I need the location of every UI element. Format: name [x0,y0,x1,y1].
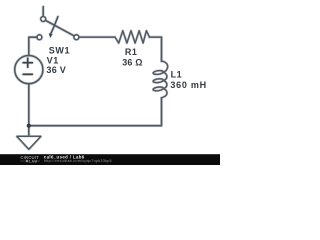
svg-text:36 Ω: 36 Ω [122,57,143,67]
inductor L1 loop 3 [153,86,164,91]
wire from V1 bottom to ground junction [28,84,30,126]
inductor L1 loop 1 [153,70,164,75]
wire from R1 to top right corner down to L1 [149,37,161,61]
svg-text:360 mH: 360 mH [170,80,207,90]
voltage source V1 [15,56,43,84]
svg-text:R1: R1 [125,47,138,57]
switch SW1 top terminal circle [41,17,46,22]
V1 plus sign [23,62,32,64]
resistor R1 zigzag [115,31,149,43]
svg-text:V1: V1 [47,55,59,65]
svg-text:36 V: 36 V [46,65,66,75]
junction node dot [27,124,31,128]
inductor L1 bulge 1-2 [163,72,167,80]
watermark bar [0,154,220,165]
switch SW1 actuation arrow [51,17,58,34]
switch SW1 top terminal stub [42,7,44,17]
V1 minus sign [23,73,32,75]
inductor L1 coil exit bulge [162,89,167,98]
switch SW1 left pole circle [37,35,42,40]
wire from L1 bottom along bottom to ground junction [29,98,162,126]
switch SW1 blade [45,20,74,36]
ground stub [28,126,30,137]
ground triangle [17,136,41,149]
svg-text:LAB: LAB [29,159,37,163]
inductor L1 bulge 2-3 [163,81,167,89]
svg-text:SW1: SW1 [49,46,70,56]
svg-text:L1: L1 [171,70,183,80]
switch SW1 right pole circle [74,35,79,40]
wire from SW1 right pole to resistor R1 [79,36,115,38]
svg-text:http://circuitlab.com/cpqc7npk: http://circuitlab.com/cpqc7npk33kp5 [44,159,112,163]
soft halo copy of schematic strokes [15,7,168,150]
inductor L1 coil entry bulge [162,61,168,72]
inductor L1 loop 2 [153,78,164,83]
wire from SW1 left pole to V1 top [29,37,37,55]
